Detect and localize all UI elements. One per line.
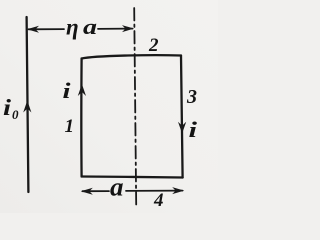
- arrow: current i on side 3 (down): [178, 122, 186, 134]
- svg-text:a: a: [83, 14, 97, 39]
- svg-text:3: 3: [186, 86, 197, 108]
- dimension line a: right segment with right arrowhead: [126, 190, 183, 192]
- arrow: current direction on wire (up): [23, 101, 31, 113]
- svg-text:i: i: [3, 95, 12, 120]
- svg-text:i: i: [189, 117, 199, 142]
- center line: vertical dash-dot axis: [134, 8, 136, 205]
- wire side 1: left side of loop: [80, 59, 83, 177]
- arrow: current i on side 1 (up): [78, 84, 86, 96]
- wire side 3: right side of loop: [181, 56, 183, 178]
- svg-text:4: 4: [153, 190, 164, 211]
- wire side 2: top side of loop: [82, 55, 181, 58]
- dimension line a: left segment with left arrowhead: [83, 190, 110, 192]
- svg-text:i: i: [63, 78, 72, 103]
- wire side 4: bottom side of loop: [82, 177, 183, 178]
- svg-text:1: 1: [65, 116, 75, 137]
- dimension line ηa: right segment with right arrowhead: [98, 28, 133, 30]
- svg-text:2: 2: [148, 35, 159, 56]
- svg-text:a: a: [110, 173, 124, 202]
- svg-text:0: 0: [12, 107, 19, 122]
- dimension line ηa: left segment with left arrowhead: [29, 28, 65, 30]
- svg-text:η: η: [66, 15, 79, 40]
- wire: long straight wire carrying i0: [27, 17, 29, 192]
